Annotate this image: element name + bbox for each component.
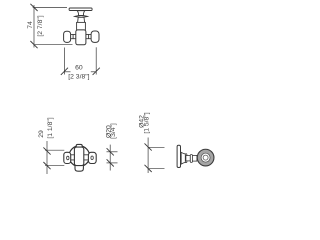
dimension line 29 <box>46 141 48 174</box>
svg-text:60: 60 <box>75 65 83 72</box>
right knob inner ellipse <box>91 156 93 160</box>
tick right (60 dim) <box>93 68 100 75</box>
svg-text:[2 7/8"]: [2 7/8"] <box>37 15 44 36</box>
tick bottom (29 dim) <box>43 162 50 169</box>
wall line (top view) <box>33 6 67 8</box>
tick bottom (Ø20 dim) <box>107 159 114 166</box>
top cap (front view) <box>76 144 82 148</box>
bottom cap (front view) <box>75 165 83 171</box>
svg-text:[3/4"]: [3/4"] <box>110 123 117 139</box>
ring (side view) <box>190 155 192 163</box>
flange plate (side view) <box>177 145 180 167</box>
extension line bottom (74 dim) <box>34 44 73 46</box>
valve body (front view) <box>74 147 83 166</box>
svg-text:74: 74 <box>27 21 34 29</box>
tick top (Ø20 dim) <box>107 148 114 155</box>
extension stub top (Ø20 dim) <box>107 151 118 153</box>
dimension line stub left (60 dim) <box>64 71 70 73</box>
knob inner circle (side view) <box>203 155 208 160</box>
right knob (front view) <box>88 152 96 163</box>
collar ring (top view) <box>75 16 88 18</box>
bonnet neck (top view) <box>78 17 85 22</box>
upper body (top view) <box>77 22 86 30</box>
extension line bottom (29 dim) <box>45 164 64 166</box>
right handle stem (top view) <box>86 34 91 38</box>
svg-text:29: 29 <box>38 130 45 138</box>
valve body (top view) <box>76 30 86 45</box>
knob middle circle (side view) <box>201 153 210 162</box>
extension line left (60 dim) <box>63 48 65 75</box>
svg-text:[2 3/8"]: [2 3/8"] <box>68 74 89 81</box>
dimension line Ø42 <box>147 138 149 174</box>
extension line top (Ø42 dim) <box>148 146 164 148</box>
neck 2 (side view) <box>192 155 197 161</box>
dimension line stub right (60 dim) <box>91 71 96 73</box>
tick top (29 dim) <box>43 147 50 154</box>
right handle knob (top view) <box>91 31 99 42</box>
dimension line 74 <box>33 5 35 48</box>
right knob stem (front view) <box>84 155 89 160</box>
tick top (Ø42 dim) <box>145 143 152 150</box>
stem trumpet (top view) <box>77 11 85 16</box>
left knob (front view) <box>64 152 71 163</box>
extension stub bottom (Ø20 dim) <box>107 162 118 164</box>
extension line top (29 dim) <box>45 149 64 151</box>
dimension line Ø20 <box>109 145 111 171</box>
svg-text:[1 5/8"]: [1 5/8"] <box>144 112 151 133</box>
left knob stem (front view) <box>70 155 74 160</box>
left handle knob (top view) <box>64 31 71 42</box>
tick top (74 dim) <box>30 4 37 11</box>
tick left (60 dim) <box>61 68 68 75</box>
left handle stem (top view) <box>71 34 76 38</box>
left knob inner ellipse <box>67 156 69 160</box>
bell (side view) <box>181 152 185 164</box>
tick bottom (74 dim) <box>30 41 37 48</box>
extension line bottom (Ø42 dim) <box>148 168 164 170</box>
escutcheon circle (front view) <box>69 146 90 167</box>
tick bottom (Ø42 dim) <box>145 165 152 172</box>
extension line right (60 dim) <box>95 47 97 74</box>
knob outer circle (side view) <box>197 149 214 166</box>
neck 1 (side view) <box>186 156 190 161</box>
bell lip ring (side view) <box>185 154 187 163</box>
svg-text:[1 1/8"]: [1 1/8"] <box>47 117 54 138</box>
flange plate (top view) <box>69 8 92 11</box>
